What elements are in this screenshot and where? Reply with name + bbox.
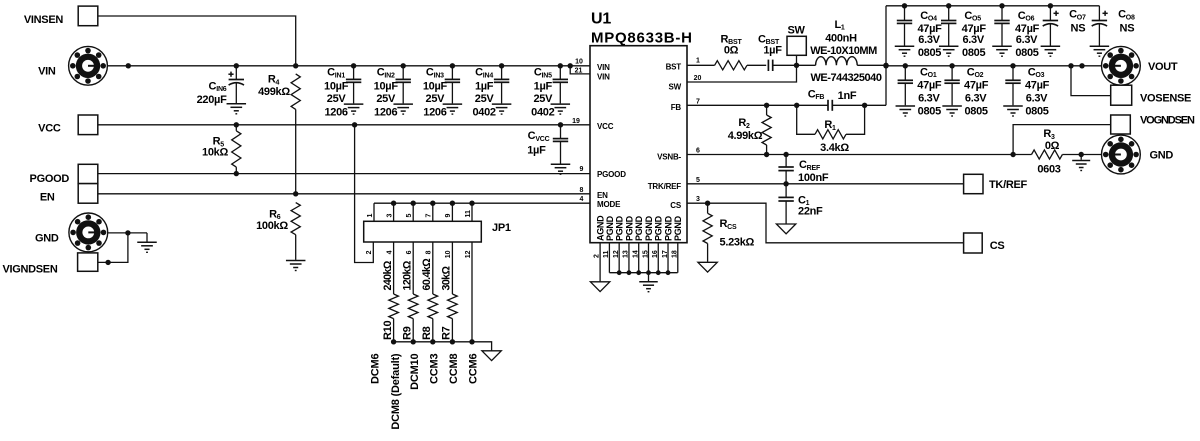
capacitor CO4: [897, 6, 942, 59]
capacitor CBST 1uF: [758, 33, 782, 71]
terminal VOSENSE: [1111, 85, 1191, 105]
svg-text:2: 2: [594, 254, 601, 258]
capacitor CO6: [994, 6, 1039, 59]
svg-text:25V: 25V: [426, 93, 446, 105]
junction VOGNDSEN to VSNB: [1010, 152, 1015, 157]
terminal VIGNDSEN: [2, 253, 97, 275]
wire VIN to pin21: [570, 66, 590, 75]
svg-text:VOUT: VOUT: [1148, 61, 1178, 73]
ground CIN1 earth: [344, 104, 364, 115]
ground CO8 earth: [1090, 46, 1110, 57]
pin 7 FB: [696, 98, 700, 105]
junction R4 bottom: [293, 191, 298, 196]
wire top rail: [886, 5, 1099, 7]
svg-text:6.3V: 6.3V: [962, 34, 984, 46]
svg-text:VSNB-: VSNB-: [657, 152, 681, 161]
junction CO3: [1010, 63, 1015, 68]
svg-text:PGND: PGND: [673, 215, 683, 241]
terminal VINSEN: [24, 6, 98, 26]
wire VOUT rail: [886, 65, 1102, 67]
ground RCS triangle: [698, 262, 717, 272]
label CCM6: [468, 354, 480, 384]
capacitor CO1 47uF: [898, 66, 942, 118]
svg-text:VINSEN: VINSEN: [24, 14, 64, 26]
junction R10 bottom: [391, 339, 396, 344]
connector VOUT: [1102, 46, 1178, 85]
junction CO6: [999, 3, 1004, 8]
svg-text:6: 6: [406, 250, 413, 254]
resistor RCS 5.23k: [703, 203, 755, 262]
svg-text:400nH: 400nH: [825, 32, 857, 44]
svg-text:6.3V: 6.3V: [918, 92, 940, 104]
label DCM8 (Default): [390, 353, 402, 430]
svg-text:0603: 0603: [1037, 164, 1060, 176]
wire JP1 pin2 to VCC: [355, 125, 374, 263]
capacitor CFB 1nF: [797, 88, 865, 110]
svg-text:6.3V: 6.3V: [965, 92, 987, 104]
svg-text:1µF: 1µF: [475, 81, 494, 93]
capacitor CO5: [941, 6, 986, 59]
svg-text:DCM8 (Default): DCM8 (Default): [390, 353, 402, 430]
junction R2 bottom: [764, 152, 769, 157]
svg-text:60.4kΩ: 60.4kΩ: [421, 258, 433, 291]
svg-text:0805: 0805: [918, 105, 941, 117]
junction VIN pin: [126, 63, 131, 68]
svg-text:R10: R10: [382, 321, 394, 340]
svg-text:VOSENSE: VOSENSE: [1140, 93, 1191, 105]
resistor R2 4.99k: [728, 105, 771, 154]
svg-text:SW: SW: [669, 82, 682, 91]
svg-text:120kΩ: 120kΩ: [401, 260, 413, 290]
capacitor CIN3 10µF: [423, 66, 460, 119]
ground GND earth: [137, 242, 157, 253]
junction CO1: [903, 63, 908, 68]
svg-text:PGND: PGND: [624, 215, 634, 241]
wire JP1 pin11 stub: [465, 203, 472, 221]
junction CIN3: [450, 63, 455, 68]
svg-text:0805: 0805: [964, 105, 987, 117]
pin 8 EN: [580, 187, 584, 194]
svg-text:47µF: 47µF: [1025, 79, 1050, 91]
wire VOGNDSEN: [1013, 125, 1111, 155]
svg-text:15: 15: [642, 250, 649, 258]
inductor L1 400nH: [797, 19, 887, 84]
wire CBST to SW node: [773, 64, 797, 66]
svg-text:U1: U1: [591, 11, 611, 28]
svg-text:GND: GND: [1150, 149, 1174, 161]
junction L1 out: [883, 63, 888, 68]
svg-text:9: 9: [445, 214, 452, 218]
wire VSNB line: [687, 154, 1032, 156]
svg-text:8: 8: [580, 187, 584, 194]
ground JP1 triangle: [482, 351, 501, 361]
svg-text:0805: 0805: [918, 47, 941, 59]
wire JP1 pin3 stub: [386, 203, 393, 221]
wire VOUT trunk: [885, 6, 887, 106]
ground CO1 earth: [896, 106, 916, 117]
svg-text:CCM3: CCM3: [428, 354, 440, 384]
svg-text:CS: CS: [670, 201, 682, 210]
connector VIN: [38, 46, 107, 85]
junction CFB left: [794, 103, 799, 108]
svg-text:2: 2: [366, 250, 373, 254]
terminal EN: [40, 184, 98, 204]
jumper JP1 box: [364, 221, 511, 242]
svg-text:TRK/REF: TRK/REF: [648, 182, 682, 191]
junction R4 top: [293, 63, 298, 68]
junction CREF top: [783, 152, 788, 157]
ground CO4 earth: [895, 46, 915, 57]
junction R9 bottom: [411, 339, 416, 344]
pins 11-18 PGND stubs: [603, 243, 678, 273]
svg-text:10µF: 10µF: [374, 81, 399, 93]
wire JP1 pin5 stub: [406, 203, 413, 221]
op-amp U1 MPQ8633B-H: [590, 11, 693, 243]
svg-text:DCM10: DCM10: [409, 354, 421, 390]
capacitor C1 22nF: [778, 184, 823, 224]
svg-text:WE-744325040: WE-744325040: [810, 72, 881, 84]
ground CO3 earth: [1003, 106, 1023, 117]
pin 5 TRKREF: [696, 177, 700, 184]
junction GND node: [125, 230, 130, 235]
svg-text:4: 4: [386, 250, 393, 254]
wire gnd stub: [1080, 155, 1082, 160]
junction R7 bottom: [450, 339, 455, 344]
wire VIGNDSEN to GND node: [98, 233, 128, 263]
svg-text:EN: EN: [40, 192, 55, 204]
ground CO7 earth: [1041, 46, 1061, 57]
junction JP1 pin7: [430, 201, 435, 206]
svg-text:PGOOD: PGOOD: [597, 170, 626, 179]
wire SW pin20: [687, 65, 797, 82]
pin 3 CS: [696, 196, 700, 203]
svg-text:16: 16: [652, 250, 659, 258]
junction CO7: [1048, 3, 1053, 8]
wire PGND bus to ground: [648, 273, 650, 281]
svg-text:5.23kΩ: 5.23kΩ: [720, 237, 755, 249]
junction CFB right: [862, 103, 867, 108]
junction R8 bottom: [430, 339, 435, 344]
junction VCC-JP1: [352, 122, 357, 127]
junction pin12 bottom: [469, 339, 474, 344]
wire MODE rail: [374, 202, 590, 204]
svg-text:1206: 1206: [374, 107, 397, 119]
junction JP1 pin5: [411, 201, 416, 206]
junction R5 bottom: [234, 171, 239, 176]
junction JP1 pin3: [391, 201, 396, 206]
connector GND out: [1102, 135, 1174, 174]
junction CIN1: [351, 63, 356, 68]
svg-text:30kΩ: 30kΩ: [441, 265, 453, 290]
wire RBST to CBST: [747, 64, 766, 66]
wire EN rail: [98, 193, 590, 195]
svg-text:VIN: VIN: [38, 65, 56, 77]
svg-text:6.3V: 6.3V: [1026, 92, 1048, 104]
svg-text:VIGNDSEN: VIGNDSEN: [2, 263, 57, 275]
capacitor CO3 47uF: [1005, 66, 1049, 118]
svg-text:6.3V: 6.3V: [918, 34, 940, 46]
svg-text:7: 7: [426, 214, 433, 218]
svg-text:20: 20: [694, 75, 702, 82]
label CCM8: [448, 354, 460, 384]
svg-text:5: 5: [696, 177, 700, 184]
svg-text:47µF: 47µF: [964, 79, 989, 91]
svg-text:TK/REF: TK/REF: [989, 179, 1028, 191]
svg-text:MODE: MODE: [597, 200, 621, 209]
svg-text:1µF: 1µF: [763, 44, 782, 56]
junction VOUT pin: [1079, 63, 1084, 68]
ground CIN5 earth: [551, 104, 571, 115]
junction CO4: [902, 3, 907, 8]
svg-text:19: 19: [572, 118, 580, 125]
capacitor CREF 100nF: [778, 155, 828, 184]
wire JP1 ground rail: [394, 342, 492, 351]
wire JP1 pin1 stub: [367, 203, 374, 221]
ground PGND earth: [639, 282, 658, 293]
terminal VCC: [38, 115, 98, 135]
svg-text:4.99kΩ: 4.99kΩ: [728, 130, 763, 142]
junction JP1 pin11: [469, 201, 474, 206]
junction CO2: [949, 63, 954, 68]
svg-text:220µF: 220µF: [197, 94, 227, 106]
ground CVCC earth: [551, 164, 571, 175]
svg-text:25V: 25V: [533, 93, 553, 105]
capacitor CIN6 220uF: [197, 66, 244, 106]
wire VINSEN to R4 top: [98, 16, 296, 66]
svg-text:3: 3: [696, 196, 700, 203]
svg-text:DCM6: DCM6: [370, 354, 382, 384]
svg-text:8: 8: [426, 250, 433, 254]
ground C1 triangle: [776, 224, 795, 234]
svg-text:1: 1: [696, 58, 700, 65]
resistor R5 10k: [202, 125, 241, 174]
resistor R7 30kΩ: [441, 242, 458, 342]
svg-text:VIN: VIN: [597, 72, 610, 81]
junction VOSENSE tap: [1068, 63, 1073, 68]
svg-text:100nF: 100nF: [798, 172, 829, 184]
svg-text:CCM6: CCM6: [468, 354, 480, 384]
wire JP1 pin9 stub: [445, 203, 452, 221]
svg-text:25V: 25V: [327, 93, 347, 105]
wire R3 to GND conn: [1062, 154, 1101, 156]
label DCM10: [409, 354, 421, 390]
svg-text:3.4kΩ: 3.4kΩ: [820, 142, 849, 154]
svg-text:6.3V: 6.3V: [1016, 34, 1038, 46]
junction R5 top: [234, 122, 239, 127]
svg-text:25V: 25V: [475, 93, 495, 105]
ground CIN2 earth: [393, 104, 413, 115]
wire VOSENSE: [1071, 66, 1111, 96]
svg-text:14: 14: [633, 250, 640, 258]
svg-text:17: 17: [662, 250, 669, 258]
svg-text:0Ω: 0Ω: [1045, 140, 1060, 152]
svg-text:10: 10: [575, 59, 583, 66]
svg-text:PGND: PGND: [615, 215, 625, 241]
label CCM3: [428, 354, 440, 384]
wire JP1 pin7 stub: [426, 203, 433, 221]
resistor R3 0ohm: [1032, 128, 1063, 175]
junction trunk rail: [883, 63, 888, 68]
svg-text:499kΩ: 499kΩ: [258, 86, 290, 98]
wire PGND bus: [609, 272, 677, 274]
wire GND to ground: [108, 233, 147, 242]
wire SW box to node: [796, 55, 798, 65]
junctions PGND bus: [617, 270, 671, 275]
junction R3 gnd: [1079, 152, 1084, 157]
ground R6 earth: [286, 261, 306, 272]
resistor R10 240kΩ: [382, 242, 399, 342]
svg-text:13: 13: [623, 250, 630, 258]
junction CREF bottom: [783, 181, 788, 186]
pin 1 BST: [696, 58, 700, 65]
terminal TKREF: [964, 174, 1028, 193]
capacitor CIN5 1µF: [531, 66, 568, 119]
svg-text:PGOOD: PGOOD: [30, 173, 70, 185]
svg-text:NS: NS: [1120, 23, 1135, 35]
resistor R4 499k: [258, 74, 300, 194]
svg-text:10µF: 10µF: [423, 81, 448, 93]
svg-text:0402: 0402: [531, 107, 554, 119]
ground CIN6 earth: [227, 104, 247, 115]
svg-text:PGND: PGND: [654, 215, 664, 241]
wire FB line: [687, 104, 797, 106]
junction CIN4: [499, 63, 504, 68]
junction pin21 branch: [568, 63, 573, 68]
svg-text:WE-10X10MM: WE-10X10MM: [810, 45, 877, 57]
svg-text:PGND: PGND: [644, 215, 654, 241]
ground CIN4 earth: [492, 104, 512, 115]
svg-text:MPQ8633B-H: MPQ8633B-H: [591, 29, 693, 46]
resistor RBST 0ohm: [715, 33, 747, 70]
svg-text:100kΩ: 100kΩ: [256, 220, 288, 232]
svg-text:EN: EN: [597, 191, 608, 200]
svg-text:25V: 25V: [376, 93, 396, 105]
ground CO6 earth: [992, 46, 1012, 57]
wire VIN rail: [107, 65, 570, 67]
resistor R9 120kΩ: [401, 242, 418, 342]
svg-text:7: 7: [696, 98, 700, 105]
wire PGOOD rail: [98, 173, 590, 175]
ground CO5 earth: [939, 46, 959, 57]
svg-text:BST: BST: [666, 63, 682, 72]
svg-text:GND: GND: [35, 233, 59, 245]
pin 9 PGOOD: [580, 166, 584, 173]
svg-text:5: 5: [406, 214, 413, 218]
junction CIN6: [234, 63, 239, 68]
svg-text:12: 12: [465, 250, 472, 258]
svg-text:VOGNDSEN: VOGNDSEN: [1140, 114, 1195, 126]
svg-text:1: 1: [367, 214, 374, 218]
svg-text:PGND: PGND: [634, 215, 644, 241]
wire VCC rail: [98, 124, 590, 126]
ground R3 earth: [1072, 161, 1090, 172]
svg-text:6: 6: [696, 148, 700, 155]
svg-text:CCM8: CCM8: [448, 354, 460, 384]
svg-text:0805: 0805: [962, 47, 985, 59]
label DCM6: [370, 354, 382, 384]
svg-text:R7: R7: [441, 326, 453, 340]
svg-text:SW: SW: [787, 25, 805, 37]
svg-text:0805: 0805: [1025, 105, 1048, 117]
svg-text:JP1: JP1: [492, 222, 511, 234]
connector GND: [35, 213, 108, 252]
svg-text:0Ω: 0Ω: [724, 44, 739, 56]
svg-text:FB: FB: [671, 103, 682, 112]
wire TRKREF line: [687, 183, 964, 185]
junction CO5: [946, 3, 951, 8]
resistor R6 100k: [256, 203, 300, 260]
svg-text:1µF: 1µF: [527, 145, 546, 157]
resistor R1 3.4k: [797, 105, 865, 154]
svg-text:PGND: PGND: [663, 215, 673, 241]
terminal PGOOD: [30, 164, 98, 185]
svg-text:3: 3: [386, 214, 393, 218]
svg-text:11: 11: [603, 250, 610, 258]
svg-text:10µF: 10µF: [324, 81, 349, 93]
capacitor CIN2 10µF: [374, 66, 411, 119]
svg-text:0402: 0402: [472, 107, 495, 119]
wire JP1 pin12 stub: [465, 242, 472, 342]
svg-text:VCC: VCC: [597, 122, 614, 131]
capacitor CO7: [1043, 6, 1086, 46]
junction JP1 pin9: [450, 201, 455, 206]
svg-text:240kΩ: 240kΩ: [382, 260, 394, 290]
svg-text:1206: 1206: [324, 107, 347, 119]
svg-text:18: 18: [672, 250, 679, 258]
terminal SW: [787, 25, 806, 56]
svg-text:VIN: VIN: [597, 63, 610, 72]
pin 2 AGND stub: [594, 243, 601, 282]
wire BST lead: [687, 64, 715, 66]
capacitor CVCC 1uF: [527, 125, 568, 164]
junction CVCC: [558, 122, 563, 127]
svg-text:0805: 0805: [1015, 47, 1038, 59]
svg-text:10kΩ: 10kΩ: [202, 147, 228, 159]
svg-text:22nF: 22nF: [798, 206, 823, 218]
junction CIN5: [558, 63, 563, 68]
svg-text:CS: CS: [990, 240, 1005, 252]
junction VIGNDSEN pin: [105, 260, 110, 265]
pin 19 VCC: [572, 118, 580, 125]
ground CIN3 earth: [443, 104, 463, 115]
pin 6 VSNB: [696, 148, 700, 155]
wire FB to trunk: [865, 104, 886, 106]
svg-text:9: 9: [580, 166, 584, 173]
capacitor CIN4 1µF: [472, 66, 509, 119]
svg-text:1nF: 1nF: [838, 90, 857, 102]
svg-text:R8: R8: [421, 326, 433, 340]
svg-text:VCC: VCC: [38, 122, 61, 134]
resistor R8 60.4kΩ: [421, 242, 438, 342]
junction CIN2: [401, 63, 406, 68]
junction RCS tap: [705, 201, 710, 206]
svg-text:11: 11: [465, 210, 472, 218]
svg-text:47µF: 47µF: [917, 79, 942, 91]
svg-text:1206: 1206: [423, 107, 446, 119]
svg-text:R9: R9: [401, 326, 413, 340]
ground CO2 earth: [942, 106, 962, 117]
capacitor CIN1 10µF: [324, 66, 361, 119]
capacitor CO2 47uF: [944, 66, 988, 118]
svg-text:NS: NS: [1071, 23, 1086, 35]
svg-text:21: 21: [575, 68, 583, 75]
wire CS line: [687, 203, 964, 243]
capacitor CO8: [1092, 6, 1135, 46]
junction SW node: [794, 63, 799, 68]
junction R2 top: [764, 103, 769, 108]
svg-text:1µF: 1µF: [534, 81, 553, 93]
svg-text:10: 10: [445, 250, 452, 258]
